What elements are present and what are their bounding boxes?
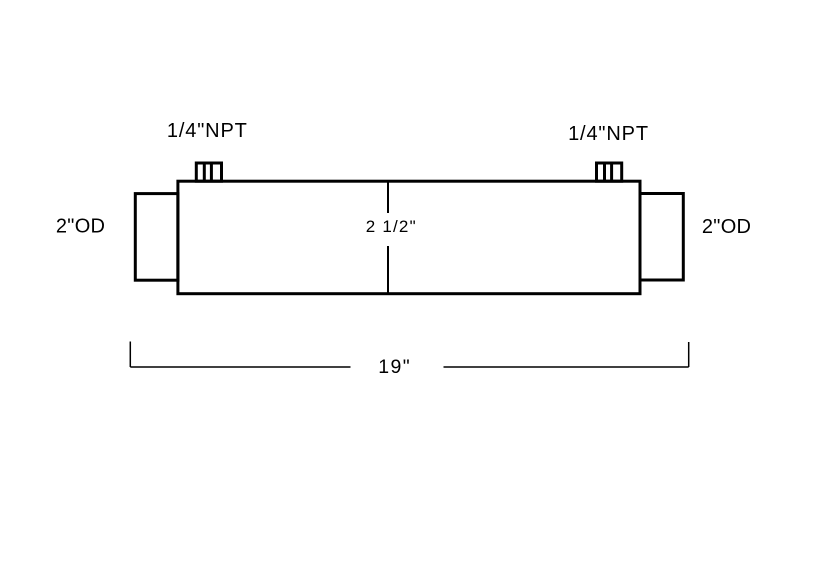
svg-text:19": 19" — [378, 356, 411, 378]
svg-text:1/4"NPT: 1/4"NPT — [167, 120, 248, 142]
svg-text:1/4"NPT: 1/4"NPT — [568, 123, 649, 145]
svg-text:2"OD: 2"OD — [56, 215, 105, 237]
svg-text:2 1/2": 2 1/2" — [366, 217, 417, 236]
svg-text:2"OD: 2"OD — [702, 216, 751, 238]
